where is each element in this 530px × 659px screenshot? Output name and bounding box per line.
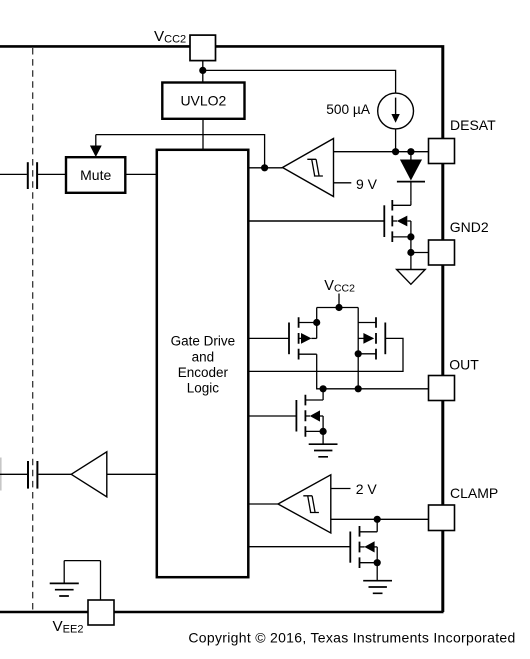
svg-text:500 µA: 500 µA — [326, 102, 371, 117]
svg-text:and: and — [192, 349, 215, 364]
wire gate drive to clamp comparator — [248, 503, 278, 505]
wire gate drive to DESAT comparator input — [248, 167, 282, 169]
ground GND2 open triangle — [397, 270, 426, 285]
label OUT — [449, 356, 479, 372]
svg-text:2 V: 2 V — [356, 481, 378, 497]
label 2 V — [356, 481, 378, 497]
wire comparator output to DESAT pin — [334, 151, 429, 153]
wire clamp comparator output to CLAMP pin — [331, 518, 429, 520]
node CLAMP junction dot — [374, 516, 381, 523]
ground Q4 source — [309, 444, 338, 457]
label VCC2 internal rail — [324, 278, 355, 295]
svg-text:Encoder: Encoder — [178, 365, 229, 380]
op-amp U3 clamp comparator 2V — [278, 475, 331, 533]
transistor Q2 totem left PMOS — [289, 308, 323, 389]
svg-text:Copyright © 2016, Texas Instru: Copyright © 2016, Texas Instruments Inco… — [188, 630, 515, 646]
node VCC2 junction dot — [199, 67, 206, 74]
transistor Q3 totem right NMOS — [358, 308, 385, 389]
wire Q1 source to GND2 pin — [411, 252, 429, 254]
wire Q3 gate to gate drive — [248, 338, 403, 371]
block UVLO2 — [162, 83, 244, 119]
svg-text:GND2: GND2 — [450, 219, 489, 235]
svg-text:9 V: 9 V — [356, 176, 378, 192]
wire gate drive to Q2 gate — [248, 337, 289, 339]
node GND2 junction dot — [407, 249, 414, 256]
node VCC2 totem junction dot — [335, 304, 342, 311]
node Q5 source junction dot — [374, 559, 381, 566]
wire ground to VEE2 pin — [100, 561, 102, 600]
wire VCC2 rail to totem — [317, 294, 359, 308]
transistor Q4 OUT pulldown NMOS — [296, 389, 323, 444]
wire Mute to gate drive logic — [125, 173, 157, 175]
transistor Q5 clamp NMOS — [350, 519, 377, 580]
wire VCC2 pin to UVLO2 — [202, 61, 204, 83]
pin VCC2 — [190, 35, 216, 61]
pin GND2 — [429, 240, 455, 265]
op-amp U1 DESAT comparator 9V — [283, 139, 334, 197]
label 500 uA — [326, 102, 371, 117]
label GND2 — [450, 219, 489, 235]
svg-text:Logic: Logic — [187, 381, 220, 396]
label CLAMP — [450, 485, 498, 501]
wire arrow into Mute — [90, 135, 102, 157]
node diode anode junction dot — [407, 148, 414, 155]
node OUT rail left junction dot — [320, 385, 327, 392]
node OUT rail right junction dot — [355, 385, 362, 392]
node comparator input junction — [261, 164, 268, 171]
wire UVLO2 feedback to mute and comparator node — [96, 135, 265, 168]
pin CLAMP — [429, 505, 455, 531]
diode D1 blanking — [397, 152, 425, 200]
wire gate drive to Q1 gate — [248, 220, 384, 222]
pin OUT — [429, 376, 455, 401]
wire comparator 2V reference stub — [331, 488, 351, 490]
node Q3 drain junction dot — [355, 350, 362, 357]
wire top border rail — [0, 45, 442, 48]
ground Q5 source — [363, 581, 392, 594]
node Q4 source junction dot — [320, 428, 327, 435]
wire gate drive to Q5 gate — [248, 546, 350, 548]
wire UVLO2 to gate drive logic — [202, 119, 204, 150]
svg-text:UVLO2: UVLO2 — [180, 93, 226, 109]
wire comparator 9V reference stub — [334, 182, 352, 184]
svg-text:Mute: Mute — [80, 167, 111, 183]
label DESAT — [450, 117, 496, 133]
wire bottom border — [0, 611, 444, 614]
current source I1 500 uA — [378, 93, 414, 129]
block Mute — [66, 157, 125, 193]
wire right border — [441, 45, 444, 612]
pin DESAT — [429, 139, 455, 164]
node Q2 source-body junction dot — [313, 319, 320, 326]
svg-text:OUT: OUT — [449, 356, 479, 372]
svg-text:Gate Drive: Gate Drive — [171, 334, 236, 349]
transistor Q1 DESAT pulldown NMOS — [384, 200, 411, 270]
label 9 V — [356, 176, 378, 192]
svg-text:CLAMP: CLAMP — [450, 485, 498, 501]
node current source junction dot — [392, 148, 399, 155]
label VEE2 — [53, 618, 84, 635]
ground VEE2 local — [50, 561, 101, 596]
block Gate Drive and Encoder Logic — [157, 150, 249, 577]
wire VCC2 dot to current source — [203, 70, 396, 93]
capacitor C-bottom (isolation cap) — [0, 458, 71, 491]
wire current source to DESAT node — [395, 129, 397, 152]
node Q1 source junction dot — [407, 233, 414, 240]
wire gate drive to Q4 gate — [248, 415, 296, 417]
label VCC2 top — [154, 28, 186, 45]
wire OUT rail — [323, 388, 428, 390]
svg-text:DESAT: DESAT — [450, 117, 496, 133]
label copyright — [188, 630, 515, 646]
capacitor C-top (isolation cap) — [0, 162, 66, 189]
buffer U2 receive amp — [71, 452, 157, 497]
pin VEE2 — [88, 600, 114, 625]
isolation barrier dashed line — [32, 48, 34, 610]
